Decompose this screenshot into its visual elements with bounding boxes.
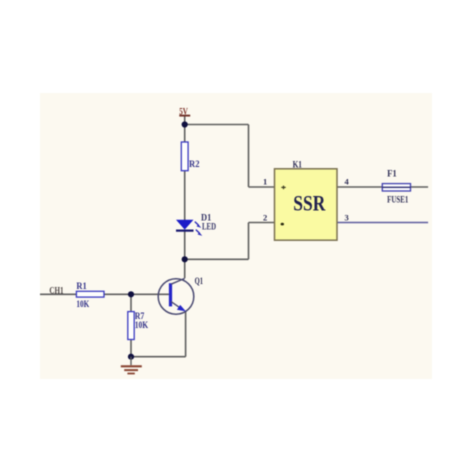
wire fuse to right end: [411, 186, 429, 188]
wire 5V junction right: [185, 124, 249, 126]
svg-text:10K: 10K: [135, 321, 149, 331]
wire ground junction right to emitter column: [131, 356, 186, 358]
ground symbol: [121, 357, 142, 374]
wire LED bottom to lower junction and down to Q1 collector: [184, 231, 186, 278]
transistor Q1 base bar: [169, 283, 172, 306]
svg-text:R2: R2: [189, 160, 200, 170]
LED D1 cathode bar: [176, 230, 194, 232]
wire base junction to Q1 base: [131, 293, 169, 295]
wire emitter down-column: [185, 311, 187, 357]
svg-text:10K: 10K: [76, 300, 89, 310]
junction dot at base node: [128, 291, 134, 297]
schematic sheet background: [40, 93, 432, 379]
wire base junction down to R7: [130, 294, 132, 311]
power symbol 5V: [179, 115, 190, 117]
svg-text:1: 1: [263, 177, 267, 187]
wire CH1 input to R1: [40, 293, 76, 295]
svg-text:CH1: CH1: [49, 287, 63, 297]
wire R2 bottom to LED top: [184, 171, 186, 220]
wire lower junction right: [185, 258, 249, 260]
transistor Q1 emitter arrow: [177, 305, 186, 312]
SSR box K1: [275, 169, 338, 240]
svg-text:5V: 5V: [179, 108, 188, 118]
dot marker near pin 2: [281, 223, 284, 226]
wire up to SSR pin2 level: [248, 223, 250, 260]
wire SSR pin3 to right end: [337, 222, 428, 224]
junction dot at 5V node: [182, 121, 188, 127]
transistor Q1 circle: [158, 279, 194, 315]
wire SSR pin4 to fuse: [337, 186, 382, 188]
resistor R2 body: [181, 142, 188, 171]
junction dot at LED bottom node: [182, 256, 188, 262]
svg-text:R1: R1: [76, 282, 87, 292]
wire R7 to ground junction: [130, 340, 132, 357]
junction dot at ground node: [128, 354, 134, 360]
fuse F1 body: [382, 184, 410, 191]
svg-text:FUSE1: FUSE1: [387, 194, 409, 204]
LED arrow 1: [195, 222, 202, 228]
svg-text:F1: F1: [387, 169, 397, 179]
wire into SSR pin2: [249, 222, 275, 224]
svg-text:Q1: Q1: [195, 276, 204, 286]
LED arrow 2: [196, 230, 203, 236]
svg-text:LED: LED: [202, 223, 216, 233]
transistor Q1 emitter line: [171, 302, 182, 310]
svg-text:SSR: SSR: [293, 190, 326, 215]
wire down to SSR pin1 level: [248, 125, 250, 188]
wire into SSR pin1: [249, 186, 275, 188]
transistor Q1 collector line: [171, 278, 185, 284]
svg-text:3: 3: [345, 212, 349, 222]
resistor R1 body: [76, 291, 104, 297]
wire 5V bar to R2 top (through junction): [184, 116, 186, 142]
fuse F1 inner line: [382, 186, 410, 188]
plus marker near pin 1: [281, 186, 285, 190]
svg-text:2: 2: [263, 212, 267, 222]
svg-text:K1: K1: [293, 159, 303, 169]
wire R1 to base junction: [104, 293, 131, 295]
LED D1 triangle: [176, 220, 194, 230]
resistor R7 body: [128, 312, 134, 340]
